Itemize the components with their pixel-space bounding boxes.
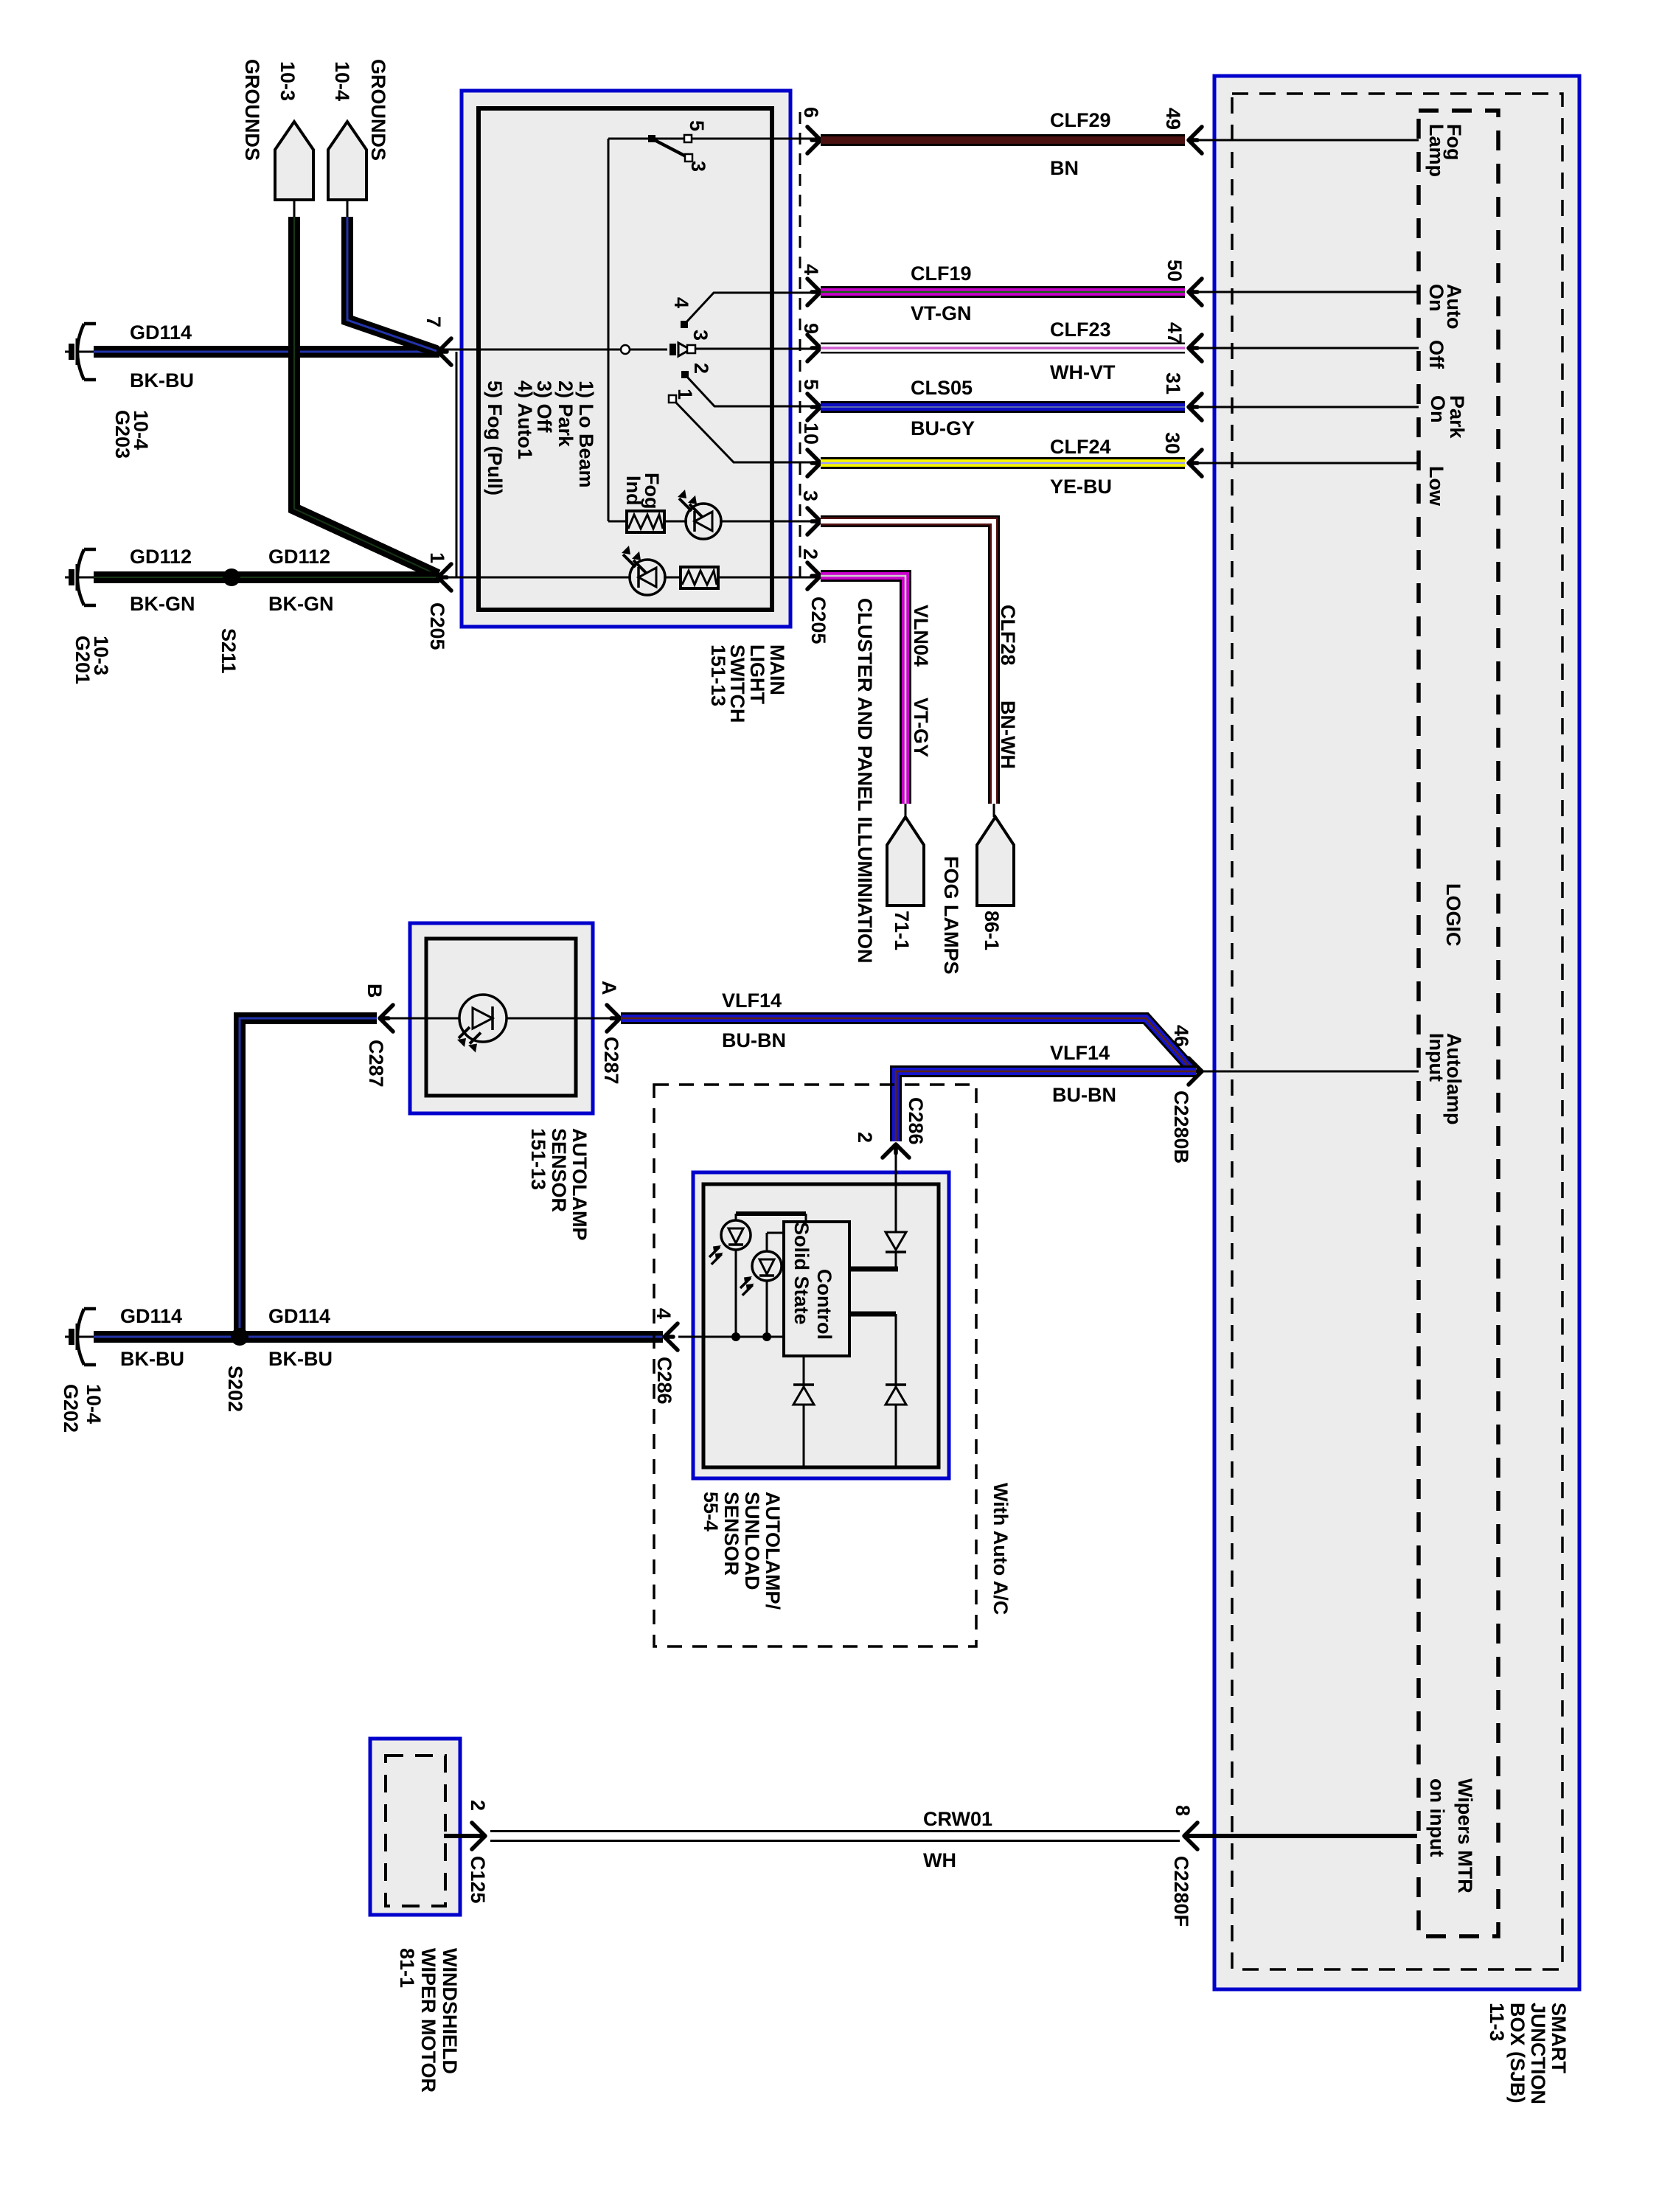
svg-text:10-4: 10-4: [130, 410, 152, 450]
wire GD114 BK-BU to ground G203: [94, 346, 439, 358]
svg-text:55-4: 55-4: [700, 1492, 722, 1531]
fog switch contact 3: [685, 154, 692, 161]
svg-text:AUTOLAMP/: AUTOLAMP/: [762, 1492, 784, 1610]
svg-text:10-3: 10-3: [90, 636, 112, 675]
photodiode 1 top wire: [735, 1214, 737, 1220]
autolamp sensor box 151-13: [410, 923, 593, 1113]
svg-text:SMART: SMART: [1548, 2003, 1570, 2073]
svg-text:49: 49: [1162, 108, 1184, 130]
panel illumination lamp: [630, 560, 665, 595]
svg-text:JUNCTION: JUNCTION: [1527, 2003, 1549, 2104]
connector arrow pin 47 SJB: [1189, 335, 1202, 361]
svg-text:BK-GN: BK-GN: [268, 593, 334, 615]
svg-text:S211: S211: [218, 628, 240, 674]
svg-text:10: 10: [800, 422, 822, 445]
svg-text:Wipers MTR: Wipers MTR: [1454, 1778, 1476, 1893]
wire BK-GN from grounds 10-3 to C205 pin 1: [294, 217, 438, 575]
wire CLF28 BN-WH to fog lamps: [821, 521, 994, 804]
control box bottom line to diode: [803, 1356, 805, 1387]
wire VLN04 VT-GY to cluster illumination: [821, 576, 905, 804]
svg-text:BK-BU: BK-BU: [268, 1348, 333, 1370]
connector arrow pin 8 C2280F: [1184, 1823, 1197, 1849]
svg-text:30: 30: [1161, 432, 1183, 454]
rotary contact 1 and blade to pin 10: [672, 399, 817, 462]
svg-text:GD112: GD112: [268, 546, 330, 568]
svg-text:CLS05: CLS05: [911, 377, 973, 399]
smart junction box SJB 11-3: [1214, 76, 1579, 1989]
svg-text:A: A: [598, 981, 620, 995]
connector arrow pin 7 C205: [438, 338, 451, 365]
svg-text:BU-GY: BU-GY: [911, 417, 975, 439]
svg-text:AUTOLAMP: AUTOLAMP: [568, 1128, 591, 1241]
svg-text:CLF19: CLF19: [911, 262, 972, 285]
svg-text:VT-GY: VT-GY: [910, 698, 932, 757]
autolamp/sunload sensor box 55-4: [693, 1172, 949, 1478]
connector arrow pin 3 C205: [807, 508, 821, 535]
wire GD114 BK-BU autolamp sensor B to splice S202: [240, 1018, 377, 1337]
svg-text:Ind: Ind: [622, 476, 644, 506]
svg-text:BU-BN: BU-BN: [1052, 1084, 1116, 1106]
svg-text:BN: BN: [1050, 157, 1079, 179]
ground G203: [65, 324, 96, 380]
svg-text:VLF14: VLF14: [722, 990, 782, 1012]
svg-text:CLF23: CLF23: [1050, 319, 1111, 341]
wire pentagon 10-3 lead: [293, 200, 296, 217]
wire switch common feed vertical: [608, 139, 610, 521]
connector arrow pin 4 C205: [807, 279, 821, 305]
SJB internal line pin 50 Auto On: [1191, 291, 1419, 293]
windshield wiper motor box 81-1: [370, 1739, 460, 1915]
C205 connector dashed line right of switch: [799, 112, 801, 581]
svg-text:GD114: GD114: [120, 1305, 182, 1327]
svg-text:GROUNDS: GROUNDS: [367, 59, 389, 161]
svg-text:9: 9: [800, 323, 822, 334]
svg-text:CLF24: CLF24: [1050, 436, 1111, 458]
svg-text:151-13: 151-13: [527, 1128, 549, 1190]
svg-text:WH-VT: WH-VT: [1050, 361, 1116, 383]
rotary switch wiper: [669, 344, 676, 355]
svg-text:46: 46: [1170, 1025, 1192, 1047]
svg-text:VLN04: VLN04: [910, 605, 932, 667]
SJB internal line pin 31 Park On: [1191, 406, 1419, 408]
svg-text:11-3: 11-3: [1486, 2003, 1508, 2042]
svg-text:With Auto A/C: With Auto A/C: [990, 1483, 1012, 1615]
connector arrow pin 46 C2280B: [1189, 1058, 1202, 1085]
connector arrow pin 49 SJB: [1189, 127, 1202, 153]
svg-text:C287: C287: [365, 1040, 387, 1088]
svg-text:6: 6: [800, 107, 822, 118]
photodiode ground wires: [735, 1250, 737, 1337]
wire CLF24 YE-BU: [821, 457, 1185, 469]
svg-text:C205: C205: [807, 597, 829, 644]
svg-text:4: 4: [670, 297, 692, 308]
sunload bottom right diode: [886, 1387, 906, 1405]
wiper motor pin 2 lead: [444, 1834, 480, 1838]
grounds connector pentagon 10-3: [275, 122, 313, 200]
svg-text:10-4: 10-4: [83, 1384, 105, 1424]
fog indicator lamp: [686, 504, 721, 539]
SJB outer dashed connector boundary: [1232, 94, 1562, 1969]
svg-text:4: 4: [800, 264, 822, 275]
wire CLF23 WH-VT: [821, 343, 1185, 354]
svg-text:BN-WH: BN-WH: [997, 700, 1019, 769]
svg-text:SENSOR: SENSOR: [548, 1128, 570, 1212]
svg-text:3: 3: [687, 161, 709, 172]
connector arrow pin A C287: [607, 1005, 620, 1032]
svg-text:S202: S202: [224, 1366, 246, 1412]
wire CLF19 VT-GN: [821, 286, 1185, 298]
svg-text:8: 8: [1172, 1805, 1194, 1816]
rotary contact 2 and blade to pin 5: [685, 375, 817, 406]
svg-text:C2280F: C2280F: [1170, 1856, 1192, 1927]
connector arrow pin 10 C205: [807, 450, 821, 476]
svg-text:LOGIC: LOGIC: [1442, 883, 1464, 947]
control solid state box: [784, 1222, 849, 1356]
connector arrow pin 2 C125: [472, 1823, 485, 1849]
svg-text:4) Auto1: 4) Auto1: [514, 380, 536, 459]
svg-text:10-4: 10-4: [331, 61, 353, 101]
connector arrow pin B C287: [380, 1005, 393, 1032]
svg-text:GROUNDS: GROUNDS: [241, 59, 263, 161]
sunload sensor pin 2 line to diode: [895, 1147, 897, 1232]
svg-text:3: 3: [689, 330, 712, 341]
connector arrow pin 5 C205: [807, 394, 821, 420]
rotary contact 4 and blade to pin 4: [684, 293, 817, 324]
wire CRW01 WH wiper motor to SJB pin 8: [490, 1830, 1180, 1842]
connector arrow pin 50 SJB: [1189, 279, 1202, 305]
svg-text:1: 1: [426, 552, 448, 563]
svg-text:G202: G202: [60, 1384, 82, 1433]
splice S202: [231, 1328, 248, 1346]
svg-text:Control: Control: [813, 1269, 835, 1340]
svg-text:MAIN: MAIN: [766, 644, 788, 695]
svg-text:WH: WH: [923, 1849, 956, 1871]
sunload pin 4 internal line: [678, 1336, 784, 1338]
svg-text:Low: Low: [1425, 466, 1447, 507]
svg-text:GD112: GD112: [130, 546, 192, 568]
svg-text:On: On: [1425, 284, 1447, 312]
fog lamps connector lead: [993, 804, 995, 817]
connector arrow pin 1 C205: [438, 564, 451, 591]
svg-text:2: 2: [799, 549, 821, 560]
svg-text:BU-BN: BU-BN: [722, 1029, 786, 1051]
svg-text:GD114: GD114: [130, 321, 192, 344]
svg-text:GD114: GD114: [268, 1305, 330, 1327]
svg-text:C286: C286: [653, 1357, 675, 1405]
wire VLF14 BU-BN SJB pin 46 to sunload sensor C286 pin 2: [896, 1071, 1196, 1141]
svg-text:YE-BU: YE-BU: [1050, 476, 1112, 498]
svg-text:BK-BU: BK-BU: [120, 1348, 184, 1370]
svg-text:BK-GN: BK-GN: [130, 593, 195, 615]
sunload top diode: [886, 1232, 906, 1250]
SJB LOGIC dashed box: [1419, 111, 1498, 1936]
svg-text:LIGHT: LIGHT: [746, 644, 768, 704]
connector arrow pin 2 C205: [807, 563, 821, 589]
svg-text:C205: C205: [426, 602, 448, 650]
svg-text:On: On: [1427, 395, 1449, 423]
SJB internal line pin 46 Autolamp Input: [1202, 1071, 1419, 1073]
svg-text:CLF29: CLF29: [1050, 109, 1111, 131]
svg-text:47: 47: [1164, 322, 1186, 344]
svg-text:BOX (SJB): BOX (SJB): [1506, 2003, 1528, 2104]
svg-text:71-1: 71-1: [891, 911, 913, 950]
svg-text:86-1: 86-1: [981, 911, 1003, 950]
svg-text:Input: Input: [1425, 1033, 1447, 1082]
SJB internal line pin 30 Low: [1191, 462, 1419, 465]
splice S211: [223, 568, 240, 586]
connector arrow pin 31 SJB: [1189, 394, 1202, 420]
cluster connector pentagon 71-1: [887, 817, 924, 905]
svg-text:WINDSHIELD: WINDSHIELD: [439, 1948, 461, 2074]
svg-text:BK-BU: BK-BU: [130, 369, 194, 392]
svg-text:CLUSTER AND PANEL ILLUMINIATIO: CLUSTER AND PANEL ILLUMINIATION: [854, 598, 876, 963]
svg-text:B: B: [364, 984, 386, 998]
ground G201: [65, 549, 96, 605]
svg-text:81-1: 81-1: [396, 1948, 418, 1988]
wire GD112 BK-GN ground G201 to splice S211: [94, 571, 439, 583]
control box output line: [849, 1312, 896, 1317]
connector arrow pin 4 C286: [664, 1324, 678, 1350]
autolamp sensor photo diode: [459, 995, 507, 1042]
svg-text:10-3: 10-3: [276, 61, 299, 101]
svg-text:C125: C125: [467, 1856, 489, 1904]
svg-text:1: 1: [674, 389, 696, 400]
svg-text:C2280B: C2280B: [1170, 1091, 1192, 1164]
svg-text:Solid State: Solid State: [790, 1222, 813, 1325]
ground G202: [65, 1309, 96, 1365]
SJB internal line pin 8 Wipers MTR on input: [1187, 1834, 1417, 1838]
svg-text:2: 2: [690, 363, 712, 374]
SJB internal line pin 47 Off: [1191, 347, 1419, 349]
svg-text:4: 4: [653, 1308, 675, 1319]
svg-text:CRW01: CRW01: [923, 1808, 992, 1830]
photodiode 2: [752, 1251, 782, 1281]
photodiode 2 top wire: [766, 1233, 768, 1251]
svg-text:151-13: 151-13: [707, 644, 729, 706]
fog lamps connector pentagon 86-1: [977, 817, 1014, 905]
wire rotary common row pin 7 to pivot: [441, 349, 667, 351]
SJB internal line pin 49 Fog Lamp: [1191, 139, 1419, 142]
sunload bottom left diode: [793, 1387, 814, 1405]
svg-text:CLF28: CLF28: [997, 605, 1019, 666]
with auto A/C dashed box: [654, 1085, 976, 1646]
junction circle on rotary row: [621, 345, 630, 354]
photodiode 1: [721, 1220, 751, 1250]
svg-text:C287: C287: [600, 1037, 622, 1085]
connector arrow pin 30 SJB: [1189, 450, 1202, 476]
svg-text:FOG LAMPS: FOG LAMPS: [940, 856, 962, 975]
fog switch contact 5: [684, 135, 692, 142]
wire BK-BU from grounds 10-4 to C205 pin 7: [347, 217, 437, 351]
svg-text:31: 31: [1162, 372, 1184, 394]
svg-text:5: 5: [686, 120, 708, 131]
svg-text:2: 2: [467, 1800, 489, 1811]
panel illumination lamp row wire: [441, 577, 631, 579]
wire fog switch row: [608, 138, 817, 140]
fog indicator row wire: [608, 521, 628, 523]
svg-text:WIPER MOTOR: WIPER MOTOR: [417, 1948, 439, 2093]
wire pentagon 10-4 lead: [347, 200, 349, 217]
svg-text:Lamp: Lamp: [1425, 124, 1447, 177]
svg-text:C286: C286: [905, 1097, 927, 1145]
connector arrow pin 6 C205: [807, 127, 821, 153]
wire CLF29 BN: [821, 134, 1185, 146]
C205 connector line left of switch: [456, 352, 458, 577]
svg-text:on input: on input: [1426, 1778, 1448, 1857]
connector arrow pin 9 C205: [807, 335, 821, 361]
svg-text:5) Fog (Pull): 5) Fog (Pull): [484, 380, 506, 495]
fog switch blade: [652, 139, 689, 158]
line diode to control box: [895, 1252, 897, 1269]
main light switch box: [462, 91, 790, 627]
autolamp sensor internal wire: [383, 1018, 459, 1020]
grounds connector pentagon 10-4: [328, 122, 366, 200]
wire CLS05 BU-GY: [821, 401, 1185, 413]
svg-text:2) Park: 2) Park: [554, 380, 577, 448]
rotary contact 3 to pin 9: [694, 348, 817, 350]
panel illumination resistor: [681, 567, 718, 588]
cluster connector lead: [905, 804, 907, 817]
svg-text:VT-GN: VT-GN: [911, 302, 972, 324]
svg-text:7: 7: [422, 316, 445, 327]
svg-text:50: 50: [1164, 260, 1186, 282]
svg-text:1) Lo Beam: 1) Lo Beam: [575, 380, 597, 488]
wire VLF14 BU-BN autolamp A to SJB pin 46: [621, 1018, 1193, 1071]
wire GD114 BK-BU ground G202 to S202 to C286 pin 4: [94, 1331, 663, 1343]
svg-text:3: 3: [799, 490, 821, 501]
connector arrow pin 2 C286: [883, 1144, 909, 1158]
fog indicator resistor: [627, 511, 664, 532]
svg-text:2: 2: [854, 1132, 876, 1143]
svg-text:SUNLOAD: SUNLOAD: [741, 1492, 763, 1590]
svg-text:5: 5: [800, 379, 822, 390]
svg-text:VLF14: VLF14: [1050, 1042, 1110, 1064]
svg-text:SENSOR: SENSOR: [720, 1492, 742, 1576]
svg-text:Off: Off: [1425, 340, 1447, 369]
